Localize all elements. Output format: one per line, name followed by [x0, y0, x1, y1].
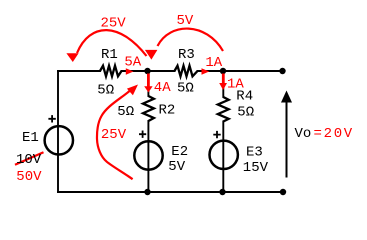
- svg-text:4A: 4A: [154, 80, 171, 96]
- svg-text:5V: 5V: [177, 13, 194, 29]
- svg-text:25V: 25V: [101, 16, 127, 32]
- svg-text:15V: 15V: [243, 160, 269, 176]
- svg-text:R3: R3: [178, 47, 195, 63]
- svg-text:R2: R2: [159, 103, 176, 119]
- svg-text:R1: R1: [101, 47, 118, 63]
- svg-text:=20V: =20V: [314, 126, 354, 142]
- svg-text:Vo: Vo: [295, 126, 312, 142]
- svg-text:5Ω: 5Ω: [117, 104, 134, 120]
- svg-text:E2: E2: [171, 144, 188, 160]
- svg-text:25V: 25V: [101, 127, 127, 143]
- svg-text:50V: 50V: [16, 169, 42, 185]
- svg-text:5Ω: 5Ω: [177, 80, 194, 96]
- svg-text:E3: E3: [246, 145, 263, 161]
- svg-text:5Ω: 5Ω: [237, 104, 254, 120]
- svg-text:10V: 10V: [16, 152, 42, 168]
- svg-text:5Ω: 5Ω: [97, 83, 114, 99]
- svg-text:E1: E1: [22, 130, 39, 146]
- svg-text:5A: 5A: [124, 55, 141, 71]
- svg-text:1A: 1A: [205, 55, 222, 71]
- svg-text:5V: 5V: [168, 159, 185, 175]
- svg-text:1A: 1A: [227, 77, 244, 93]
